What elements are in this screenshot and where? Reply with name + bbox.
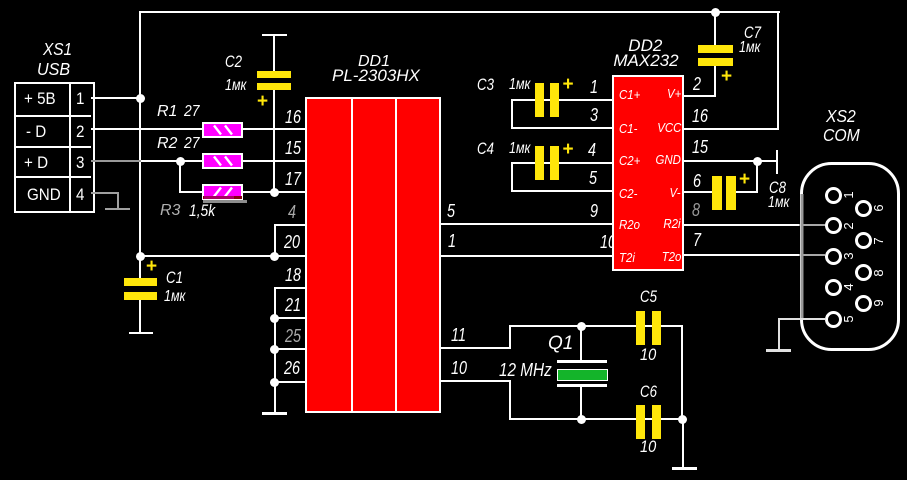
pin 1 of DD1 bbox=[448, 232, 456, 250]
wire DD2 pin15 row bbox=[684, 160, 778, 162]
polarity + of C7 bbox=[721, 67, 732, 86]
wire pin8 link gray part bbox=[799, 224, 825, 226]
wire +D junction to R2 bbox=[180, 160, 204, 162]
label MAX232 bbox=[613, 52, 678, 69]
pin 6 of DD2 bbox=[693, 172, 701, 190]
pin 11 of DD1 bbox=[451, 326, 466, 344]
wire C3 bracket bbox=[511, 99, 513, 129]
junction +5V at XS1 pin1 bbox=[136, 94, 145, 103]
capacitor C5 plates bbox=[636, 311, 645, 345]
DD2 pin name C1- bbox=[619, 122, 637, 135]
XS2 pin number 7 bbox=[872, 234, 886, 248]
DD2 pin name GND bbox=[656, 153, 681, 166]
resistor R3 bbox=[202, 184, 243, 200]
DD2 pin name V+ bbox=[667, 87, 681, 100]
wire pin7 link gray part bbox=[799, 254, 825, 256]
value R3 1,5k bbox=[189, 203, 215, 220]
wire +5V top rail bbox=[139, 11, 780, 13]
value 12 MHz bbox=[499, 361, 552, 379]
junction crystal bottom bbox=[577, 415, 586, 424]
wire R1 to DD1 pin16 bbox=[243, 128, 306, 130]
DD2 pin name T2i bbox=[619, 251, 635, 264]
label C5 bbox=[640, 288, 657, 305]
junction pin26 bbox=[270, 378, 279, 387]
pin 20 of DD1 bbox=[284, 233, 300, 251]
DD2 pin name T2o bbox=[661, 250, 681, 263]
wire XS1 pin4 GND bbox=[91, 192, 118, 194]
pin 16 of DD2 bbox=[692, 107, 708, 125]
IC DD1 PL-2303HX body bbox=[305, 97, 441, 413]
wire XS1 pin2 (-D) to R1 bbox=[91, 128, 203, 130]
wire C1 lower stub bbox=[139, 300, 141, 333]
wire DD2 pin6 row bbox=[684, 191, 712, 193]
wire crystal bottom line bbox=[509, 418, 682, 420]
wire DD2 pin7 to XS2 pin3 bbox=[684, 254, 799, 256]
DD2 pin name C2- bbox=[619, 187, 637, 200]
XS2 hole 7 bbox=[855, 232, 872, 249]
capacitor C2 plates bbox=[257, 71, 291, 78]
DD2 pin name VCC bbox=[657, 121, 681, 134]
resistor R1 bbox=[202, 122, 243, 138]
label DD2 bbox=[628, 37, 662, 54]
DD2 pin name R2i bbox=[664, 217, 681, 230]
label C3 bbox=[477, 76, 494, 93]
wire XS2 pin5 gnd bbox=[779, 318, 826, 320]
wire R3 branch vertical bbox=[179, 161, 181, 192]
polarity + of C4 bbox=[563, 140, 574, 159]
pin 5 of DD1 bbox=[447, 202, 455, 220]
XS1 pin number 4 bbox=[76, 187, 84, 204]
XS1 pin number 1 bbox=[76, 91, 84, 108]
pin 4 of DD1 bbox=[288, 203, 296, 221]
wire R3 to DD1 pin17 bbox=[243, 191, 306, 193]
pin 15 of DD1 bbox=[285, 139, 301, 157]
wire crystal top line bbox=[509, 325, 682, 327]
pin 15 of DD2 bbox=[692, 138, 708, 156]
ground terminal bar XS2 pin5 bbox=[766, 349, 791, 352]
wire +5V left vertical bbox=[139, 11, 141, 278]
polarity + of C8 bbox=[739, 170, 750, 189]
label C1 bbox=[166, 269, 183, 286]
label C4 bbox=[477, 140, 494, 157]
XS2 hole 6 bbox=[855, 200, 872, 217]
pin 5 of DD2 bbox=[589, 169, 597, 187]
wire DD1 pin20 row bbox=[139, 255, 306, 257]
wire DD1 pin26 stub bbox=[274, 381, 306, 383]
pin 17 of DD1 bbox=[285, 170, 301, 188]
XS2 pin number 1 bbox=[842, 188, 856, 202]
capacitor C1 plates bbox=[124, 278, 157, 286]
XS2 hole 5 bbox=[825, 311, 842, 328]
junction +5V pin20 bbox=[136, 252, 145, 261]
connector XS1 table bbox=[14, 82, 95, 213]
label DD1 bbox=[358, 54, 390, 70]
value C1 1мк bbox=[164, 289, 185, 305]
label XS1 bbox=[43, 41, 72, 59]
pin 8 of DD2 bbox=[692, 201, 700, 219]
pin 10 of DD1 bbox=[451, 359, 467, 377]
XS2 hole 9 bbox=[855, 295, 872, 312]
XS2 pin number 6 bbox=[872, 201, 886, 215]
XS1 pin number 3 bbox=[76, 155, 84, 172]
wire C7 bottom stub bbox=[714, 66, 716, 97]
label Q1 bbox=[548, 334, 573, 353]
wire pin11 riser bbox=[509, 326, 511, 349]
junction C6 gnd bbox=[678, 415, 687, 424]
value C3 1мк bbox=[509, 77, 530, 93]
pin 9 of DD2 bbox=[590, 202, 598, 220]
wire DD1 pin1 to DD2 pin10 bbox=[441, 255, 612, 257]
value C8 1мк bbox=[768, 195, 789, 211]
XS1 pin name +5B bbox=[24, 91, 56, 108]
wire C2 top stub bbox=[273, 34, 275, 71]
XS2 pin number 5 bbox=[842, 312, 856, 326]
capacitor C4 plates bbox=[535, 146, 544, 180]
ground terminal bar crystal bbox=[672, 467, 697, 469]
wire DD1 pin18 stub bbox=[274, 287, 306, 289]
XS1 pin name -D bbox=[26, 124, 46, 141]
IC DD2 MAX232 body bbox=[612, 75, 684, 271]
label COM bbox=[823, 127, 860, 145]
wire XS1 pin3 (+D) white part bbox=[141, 160, 181, 162]
wire DD1 pin21 stub bbox=[274, 317, 306, 319]
pin 3 of DD2 bbox=[590, 106, 598, 124]
wire crystal bottom stub bbox=[580, 387, 582, 419]
capacitor C8 plates bbox=[712, 176, 722, 210]
wire DD1 pin11 stub bbox=[441, 347, 510, 349]
DD2 pin name R2o bbox=[619, 218, 640, 231]
XS2 hole 2 bbox=[825, 217, 842, 234]
wire DD2 pin1 row bbox=[511, 99, 612, 101]
wire DD1 pin10 stub bbox=[441, 380, 510, 382]
ground terminal bar C1 bottom bbox=[129, 332, 153, 334]
label C7 bbox=[744, 24, 761, 41]
polarity + of C1 bbox=[146, 257, 157, 276]
junction +D R2/R3 bbox=[176, 157, 185, 166]
wire DD2 pin4 row bbox=[511, 162, 612, 164]
XS2 pin number 8 bbox=[872, 266, 886, 280]
junction crystal top bbox=[577, 322, 586, 331]
polarity + of C2 bbox=[257, 92, 268, 111]
wire C8 right link bbox=[736, 191, 758, 193]
wire DD1 pin25 stub bbox=[274, 348, 306, 350]
wire DD2 pin5 row bbox=[511, 190, 612, 192]
junction pin17 / C2 / R3 bbox=[270, 188, 279, 197]
pin 25 of DD1 bbox=[285, 327, 301, 345]
junction pin21 bbox=[270, 314, 279, 323]
wire C2 bottom to pin17 bbox=[273, 90, 275, 193]
XS2 hole 4 bbox=[825, 279, 842, 296]
shadow under R3 bbox=[203, 200, 247, 203]
wire DD2 pin2 row bbox=[684, 95, 716, 97]
wire bracket pin18-gnd bbox=[274, 287, 276, 413]
wire C5 right vertical bbox=[681, 325, 683, 420]
XS1 pin name +D bbox=[24, 155, 48, 172]
label USB bbox=[37, 61, 70, 79]
pin 26 of DD1 bbox=[284, 359, 300, 377]
capacitor C6 plates bbox=[636, 405, 645, 439]
pin 18 of DD1 bbox=[285, 266, 301, 284]
XS2 pin number 9 bbox=[872, 296, 886, 310]
value R2 27 bbox=[184, 136, 199, 152]
pin 2 of DD2 bbox=[693, 75, 701, 93]
label R2 bbox=[157, 136, 177, 152]
label R1 bbox=[157, 104, 177, 120]
wire rail right drop bbox=[777, 11, 779, 130]
wire GND stub down bbox=[117, 192, 119, 209]
value C7 1мк bbox=[739, 40, 760, 56]
label C6 bbox=[640, 383, 657, 400]
wire C7 top stub bbox=[714, 11, 716, 45]
ground terminal bar DD2 pin15 bbox=[776, 150, 778, 174]
DD2 pin name C2+ bbox=[619, 154, 640, 167]
label PL-2303HX bbox=[332, 67, 420, 84]
value C6 10 bbox=[640, 438, 656, 455]
capacitor C3 plates bbox=[535, 83, 544, 117]
wire crystal top stub bbox=[580, 326, 582, 360]
wire DD2 pin16 row bbox=[684, 128, 779, 130]
XS2 hole 8 bbox=[855, 264, 872, 281]
connector XS2 DB9 shell bbox=[799, 161, 902, 352]
value C5 10 bbox=[640, 346, 656, 363]
pin 7 of DD2 bbox=[693, 231, 701, 249]
wire DD1 pin5 to DD2 pin9 bbox=[441, 223, 612, 225]
XS2 pin number 2 bbox=[842, 219, 856, 233]
wire pin10 dropper bbox=[509, 380, 511, 420]
crystal Q1 bbox=[557, 360, 607, 363]
junction rail C7 bbox=[711, 8, 720, 17]
wire DD2 pin8 to XS2 pin2 bbox=[684, 224, 799, 226]
terminal bar at C2 top (common) bbox=[262, 34, 287, 36]
wire gnd drop crystal bbox=[682, 419, 684, 468]
value R1 27 bbox=[184, 104, 199, 120]
XS2 hole 1 bbox=[825, 187, 842, 204]
resistor R2 bbox=[202, 153, 243, 169]
wire XS1 pin3 (+D) gray part bbox=[91, 160, 141, 162]
wire XS2 gnd drop bbox=[778, 318, 780, 350]
pin 4 of DD2 bbox=[588, 141, 596, 159]
pin 1 of DD2 bbox=[590, 78, 598, 96]
capacitor C7 plates bbox=[698, 45, 733, 53]
pin 10 of DD2 bbox=[600, 233, 616, 251]
label C2 bbox=[225, 53, 242, 70]
label XS2 bbox=[826, 108, 856, 126]
wire R2 to DD1 pin15 bbox=[243, 160, 306, 162]
polarity + of C3 bbox=[563, 75, 574, 94]
pin 21 of DD1 bbox=[285, 296, 301, 314]
value C2 1мк bbox=[225, 78, 246, 94]
junction pin25 bbox=[270, 345, 279, 354]
XS2 hole 3 bbox=[825, 248, 842, 265]
junction pin4/pin20 bbox=[270, 252, 279, 261]
DD2 pin name C1+ bbox=[619, 88, 640, 101]
ground terminal bar XS1 GND bbox=[105, 208, 130, 210]
label R3 bbox=[160, 203, 180, 219]
XS1 pin number 2 bbox=[76, 124, 84, 141]
wire C8 branch vertical bbox=[756, 161, 758, 193]
XS2 pin number 3 bbox=[842, 249, 856, 263]
wire bracket pin4-pin20 bbox=[274, 224, 276, 257]
wire DD2 pin3 row bbox=[511, 127, 612, 129]
wire R3 left bbox=[179, 191, 204, 193]
DD2 pin name V- bbox=[670, 186, 681, 199]
XS2 pin number 4 bbox=[842, 280, 856, 294]
pin 16 of DD1 bbox=[285, 108, 301, 126]
wire DD1 pin4 stub bbox=[274, 224, 306, 226]
label C8 bbox=[769, 179, 786, 196]
junction pin15 C8 bbox=[753, 157, 762, 166]
ground terminal bar DD1 bbox=[262, 412, 287, 414]
value C4 1мк bbox=[509, 141, 530, 157]
wire C4 bracket bbox=[511, 162, 513, 192]
XS1 pin name GND bbox=[27, 187, 61, 204]
wire XS1 pin1 to +5V rail bbox=[91, 97, 141, 99]
